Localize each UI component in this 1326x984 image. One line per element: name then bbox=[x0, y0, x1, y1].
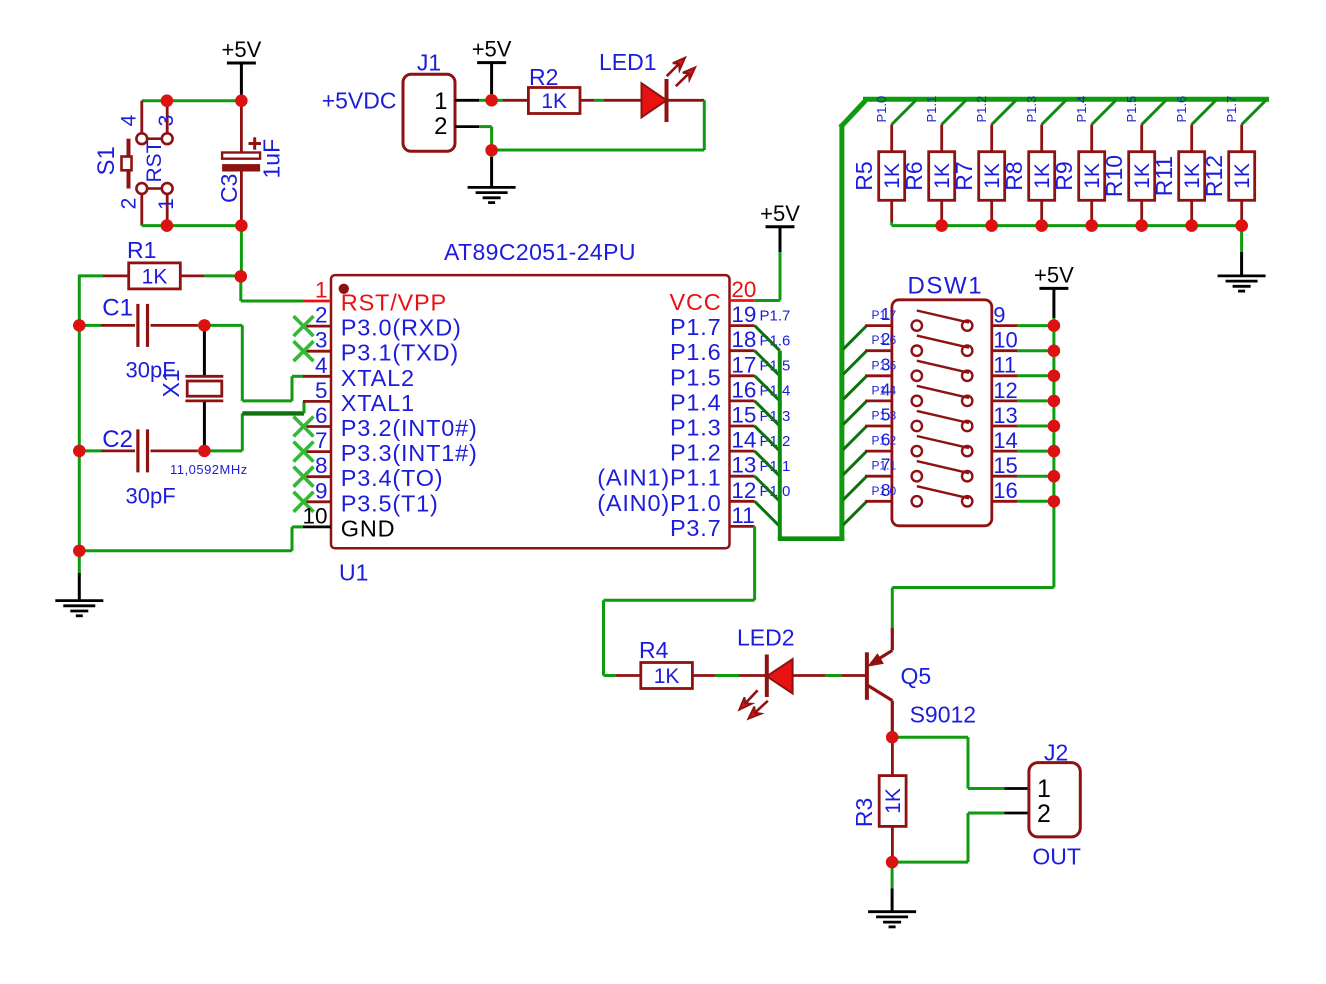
svg-text:+5VDC: +5VDC bbox=[322, 88, 397, 114]
svg-text:11: 11 bbox=[731, 503, 754, 528]
wire pin20 to +5V bbox=[755, 299, 780, 302]
svg-text:7: 7 bbox=[315, 428, 328, 453]
no-connect X pin 7 bbox=[294, 442, 314, 462]
DSW1 switch 5 (pins 5/13) bbox=[843, 426, 867, 450]
svg-text:AT89C2051-24PU: AT89C2051-24PU bbox=[444, 239, 636, 265]
svg-text:1K: 1K bbox=[882, 788, 905, 814]
wire to J2 pin 2 bbox=[892, 861, 968, 864]
svg-text:R9: R9 bbox=[1051, 161, 1077, 190]
wire P1 bundle vertical bbox=[778, 351, 782, 539]
svg-text:1: 1 bbox=[881, 304, 891, 324]
svg-text:4: 4 bbox=[118, 114, 141, 126]
U1 pin 15 P1.3 bbox=[730, 425, 755, 428]
svg-text:11,0592MHz: 11,0592MHz bbox=[170, 462, 248, 477]
wire P1 bundle bottom bbox=[778, 536, 845, 541]
svg-text:C1: C1 bbox=[102, 295, 133, 322]
svg-text:R4: R4 bbox=[639, 637, 669, 663]
ground (left rail) bbox=[78, 551, 81, 573]
DSW1 switch 2 (pins 2/10) bbox=[843, 351, 867, 375]
svg-text:+5V: +5V bbox=[222, 37, 262, 62]
svg-text:LED1: LED1 bbox=[599, 49, 657, 75]
wire S1/C3 bottom rail bbox=[142, 224, 242, 227]
svg-text:P1.5: P1.5 bbox=[1124, 96, 1139, 123]
svg-text:3: 3 bbox=[881, 354, 891, 374]
svg-text:R5: R5 bbox=[851, 161, 877, 190]
svg-text:16: 16 bbox=[731, 377, 756, 402]
svg-text:P1.5: P1.5 bbox=[670, 364, 722, 390]
svg-text:R2: R2 bbox=[529, 64, 558, 90]
J1 pin 1 stub bbox=[455, 99, 479, 102]
capacitor C3 1uF bbox=[240, 101, 243, 153]
svg-text:U1: U1 bbox=[339, 560, 368, 586]
resistor R2 1K bbox=[492, 99, 503, 102]
wire XTAL2 route bbox=[204, 324, 242, 327]
svg-text:14: 14 bbox=[731, 428, 756, 453]
svg-text:+5V: +5V bbox=[472, 37, 512, 62]
svg-text:8: 8 bbox=[881, 480, 891, 500]
svg-text:11: 11 bbox=[993, 353, 1016, 378]
crystal X1 11,0592MHz bbox=[203, 325, 206, 375]
svg-text:P1.4: P1.4 bbox=[1074, 96, 1089, 123]
wire LED2 to Q5 base bbox=[793, 674, 825, 677]
svg-text:15: 15 bbox=[731, 403, 756, 428]
junction R3 bottom bbox=[886, 856, 898, 868]
resistor R9 1K bbox=[1092, 100, 1117, 125]
U1 pin 4 XTAL2 bbox=[303, 375, 331, 378]
svg-text:13: 13 bbox=[731, 453, 756, 478]
LED1 bbox=[642, 83, 667, 117]
svg-text:P1.3: P1.3 bbox=[670, 415, 722, 441]
junction DSW1 pin 11 bbox=[1048, 370, 1060, 382]
J1 pin 2 stub bbox=[455, 125, 479, 128]
capacitor C1 30pF bbox=[79, 324, 101, 327]
wire P1 bus corner bbox=[840, 101, 865, 128]
svg-text:13: 13 bbox=[993, 403, 1017, 428]
junction DSW1 pin 14 bbox=[1048, 445, 1060, 457]
svg-text:9: 9 bbox=[993, 303, 1005, 328]
capacitor C2 30pF bbox=[79, 449, 101, 452]
wire P1.x diagonal bundle from U1 bbox=[755, 326, 780, 351]
svg-text:J2: J2 bbox=[1044, 739, 1068, 765]
svg-text:1K: 1K bbox=[142, 265, 168, 288]
wire U1 pin 11 to R4 bbox=[753, 526, 756, 600]
svg-text:2: 2 bbox=[315, 303, 328, 328]
svg-text:P1.4: P1.4 bbox=[670, 389, 722, 415]
U1 pin 18 P1.6 bbox=[730, 349, 755, 352]
U1 pin 9 P3.5(T1) bbox=[303, 500, 331, 503]
DSW1 switch 1 (pins 1/9) bbox=[843, 326, 867, 350]
svg-text:10: 10 bbox=[993, 328, 1017, 353]
svg-text:R6: R6 bbox=[901, 161, 927, 190]
U1 pin 1 marker bbox=[339, 284, 349, 294]
DSW1 switch 8 (pins 8/16) bbox=[843, 501, 867, 525]
U1 pin 20 VCC bbox=[730, 299, 755, 302]
junction ground rail bbox=[73, 545, 85, 557]
DSW1 switch 7 (pins 7/15) bbox=[843, 476, 867, 500]
junction C1/XTAL2 bbox=[198, 319, 210, 331]
wire P1 bus vertical (thick) bbox=[839, 124, 844, 541]
svg-text:9: 9 bbox=[315, 478, 328, 503]
svg-text:R1: R1 bbox=[127, 237, 156, 263]
svg-text:1uF: 1uF bbox=[259, 139, 285, 179]
resistor R12 1K bbox=[1242, 100, 1267, 125]
svg-text:P1.0: P1.0 bbox=[874, 96, 889, 123]
svg-text:R3: R3 bbox=[851, 798, 877, 827]
no-connect X pin 2 bbox=[294, 316, 314, 336]
junction DSW1 pin 13 bbox=[1048, 420, 1060, 432]
svg-text:C2: C2 bbox=[102, 426, 133, 453]
ground (J1) bbox=[490, 150, 493, 157]
resistor R3 1K bbox=[891, 741, 894, 776]
U1 pin 6 P3.2(INT0#) bbox=[303, 425, 331, 428]
no-connect X pin 3 bbox=[294, 341, 314, 361]
resistor R1 1K bbox=[79, 274, 103, 277]
svg-text:12: 12 bbox=[731, 478, 756, 503]
wire P1 bus top (thick) bbox=[863, 97, 1269, 102]
junction R1 right bbox=[235, 270, 247, 282]
svg-text:1K: 1K bbox=[541, 90, 567, 113]
junction bottom bus R11 bbox=[1186, 219, 1198, 231]
junction DSW1 pin 15 bbox=[1048, 470, 1060, 482]
svg-text:19: 19 bbox=[731, 302, 756, 327]
svg-text:(AIN1)P1.1: (AIN1)P1.1 bbox=[597, 465, 721, 491]
U1 pin 2 P3.0(RXD) bbox=[303, 325, 331, 328]
wire C3 to R1 node bbox=[240, 226, 243, 277]
svg-text:S1: S1 bbox=[93, 146, 120, 175]
U1 pin 13 (AIN1)P1.1 bbox=[730, 475, 755, 478]
svg-text:P3.7: P3.7 bbox=[670, 515, 722, 541]
U1 pin 14 P1.2 bbox=[730, 450, 755, 453]
svg-text:R11: R11 bbox=[1151, 156, 1177, 197]
U1 pin 5 XTAL1 bbox=[303, 400, 331, 403]
svg-text:P3.5(T1): P3.5(T1) bbox=[341, 490, 439, 516]
svg-text:30pF: 30pF bbox=[126, 484, 176, 509]
U1 pin 17 P1.5 bbox=[730, 374, 755, 377]
connector J1 bbox=[403, 74, 455, 151]
svg-text:P1.7: P1.7 bbox=[760, 307, 791, 324]
svg-text:DSW1: DSW1 bbox=[908, 273, 984, 300]
ground (resistor network) bbox=[1240, 226, 1243, 252]
svg-text:2: 2 bbox=[881, 329, 891, 349]
svg-text:7: 7 bbox=[881, 455, 891, 475]
U1 pin 10 GND bbox=[303, 526, 331, 529]
svg-text:5: 5 bbox=[315, 378, 328, 403]
junction Q5 collector / R3 top bbox=[886, 731, 898, 743]
svg-text:R8: R8 bbox=[1001, 161, 1027, 190]
junction bottom bus R12 bbox=[1236, 219, 1248, 231]
op IC U1 AT89C2051-24PU body bbox=[331, 275, 730, 548]
U1 pin 7 P3.3(INT1#) bbox=[303, 450, 331, 453]
svg-text:1: 1 bbox=[434, 88, 447, 115]
svg-text:6: 6 bbox=[881, 430, 891, 450]
junction DSW1 pin 12 bbox=[1048, 395, 1060, 407]
svg-text:8: 8 bbox=[315, 453, 328, 478]
wire S1/C3 top rail bbox=[142, 99, 242, 102]
svg-text:4: 4 bbox=[881, 379, 891, 399]
svg-text:P1.2: P1.2 bbox=[974, 96, 989, 123]
svg-text:RST/VPP: RST/VPP bbox=[341, 290, 447, 316]
junction on S1 pin 3 bbox=[161, 95, 173, 107]
svg-text:2: 2 bbox=[1037, 800, 1051, 828]
svg-text:P3.3(INT1#): P3.3(INT1#) bbox=[341, 440, 478, 466]
wire to J2 pin 1 bbox=[892, 736, 968, 739]
svg-text:12: 12 bbox=[993, 378, 1017, 403]
no-connect X pin 6 bbox=[294, 417, 314, 437]
svg-text:1: 1 bbox=[155, 198, 178, 210]
svg-text:1K: 1K bbox=[1231, 163, 1254, 189]
resistor R8 1K bbox=[1042, 100, 1067, 125]
wire LED1 cathode loop bbox=[667, 99, 705, 102]
wire XTAL1 route bbox=[204, 449, 242, 452]
LED2 bbox=[767, 659, 793, 693]
wire GND to U1 pin 10 bbox=[79, 549, 292, 552]
junction bottom bus R10 bbox=[1136, 219, 1148, 231]
U1 pin 16 P1.4 bbox=[730, 399, 755, 402]
U1 pin 8 P3.4(TO) bbox=[303, 475, 331, 478]
no-connect X pin 9 bbox=[294, 492, 314, 512]
transistor Q5 S9012 bbox=[865, 652, 869, 700]
resistor R10 1K bbox=[1142, 100, 1167, 125]
svg-text:R10: R10 bbox=[1101, 155, 1127, 197]
junction dots (overlay) bbox=[161, 95, 173, 107]
svg-text:P1.6: P1.6 bbox=[670, 339, 722, 365]
junction bottom bus R7 bbox=[986, 219, 998, 231]
svg-text:1K: 1K bbox=[654, 665, 680, 688]
svg-text:5: 5 bbox=[881, 405, 891, 425]
svg-text:P3.4(TO): P3.4(TO) bbox=[341, 465, 444, 491]
svg-text:GND: GND bbox=[341, 515, 396, 541]
junction S1 pin 1 bbox=[161, 219, 173, 231]
wire R1 to U1 pin 1 bbox=[239, 276, 242, 301]
DIP switch DSW1 body bbox=[892, 300, 992, 526]
resistor R7 1K bbox=[992, 100, 1017, 125]
resistor R4 1K bbox=[604, 674, 617, 677]
svg-text:P1.7: P1.7 bbox=[670, 314, 722, 340]
svg-text:P3.1(TXD): P3.1(TXD) bbox=[341, 340, 459, 366]
U1 pin 12 (AIN0)P1.0 bbox=[730, 500, 755, 503]
resistor R11 1K bbox=[1192, 100, 1217, 125]
svg-text:P3.0(RXD): P3.0(RXD) bbox=[341, 315, 462, 341]
svg-text:R7: R7 bbox=[951, 161, 977, 190]
svg-text:LED2: LED2 bbox=[737, 625, 795, 651]
junction C1 left bbox=[73, 319, 85, 331]
svg-text:3: 3 bbox=[155, 115, 178, 127]
svg-text:OUT: OUT bbox=[1032, 844, 1081, 870]
junction DSW1 pin 16 bbox=[1048, 495, 1060, 507]
resistor R5 1K bbox=[892, 100, 917, 125]
svg-text:10: 10 bbox=[302, 503, 327, 528]
wire DSW1 +5V bus bbox=[1052, 318, 1055, 588]
U1 pin 1 RST/VPP bbox=[303, 300, 331, 303]
junction bottom bus R8 bbox=[1036, 219, 1048, 231]
DSW1 switch 3 (pins 3/11) bbox=[843, 376, 867, 400]
U1 pin 11 P3.7 bbox=[730, 525, 755, 528]
svg-text:17: 17 bbox=[731, 352, 756, 377]
junction at C3 top bbox=[235, 95, 247, 107]
svg-text:4: 4 bbox=[315, 353, 328, 378]
svg-text:RST: RST bbox=[143, 140, 166, 182]
svg-text:C3: C3 bbox=[216, 174, 242, 203]
junction DSW1 pin 10 bbox=[1048, 345, 1060, 357]
svg-text:1: 1 bbox=[315, 278, 328, 303]
svg-text:P3.2(INT0#): P3.2(INT0#) bbox=[341, 415, 478, 441]
svg-text:R12: R12 bbox=[1201, 155, 1227, 197]
svg-text:S9012: S9012 bbox=[910, 702, 977, 728]
no-connect X pin 8 bbox=[294, 467, 314, 487]
junction bottom bus R6 bbox=[936, 219, 948, 231]
junction bottom bus R9 bbox=[1086, 219, 1098, 231]
svg-text:P1.7: P1.7 bbox=[1224, 96, 1239, 123]
svg-text:16: 16 bbox=[993, 478, 1017, 503]
svg-text:2: 2 bbox=[434, 113, 447, 140]
svg-text:XTAL1: XTAL1 bbox=[341, 390, 415, 416]
svg-text:(AIN0)P1.0: (AIN0)P1.0 bbox=[597, 490, 721, 516]
pushbutton S1 bbox=[140, 101, 143, 134]
svg-text:J1: J1 bbox=[417, 50, 441, 76]
svg-text:P1.6: P1.6 bbox=[1174, 96, 1189, 123]
DSW1 switch 4 (pins 4/12) bbox=[843, 401, 867, 425]
connector J2 bbox=[1029, 763, 1080, 837]
junction C3 bottom bbox=[235, 219, 247, 231]
junction J1 pin 1 node bbox=[485, 94, 497, 106]
wire +5V to Q5 emitter bbox=[892, 586, 1054, 589]
junction C2/XTAL1 bbox=[198, 445, 210, 457]
svg-text:+5V: +5V bbox=[760, 201, 800, 226]
svg-text:P1.1: P1.1 bbox=[924, 96, 939, 123]
svg-text:3: 3 bbox=[315, 328, 328, 353]
junction DSW1 pin 9 bbox=[1048, 319, 1060, 331]
svg-text:XTAL2: XTAL2 bbox=[341, 365, 415, 391]
svg-text:2: 2 bbox=[118, 198, 141, 210]
svg-text:18: 18 bbox=[731, 327, 756, 352]
resistor R6 1K bbox=[942, 100, 967, 125]
wire resistor network bottom bus bbox=[892, 224, 1242, 227]
svg-text:P1.3: P1.3 bbox=[1024, 96, 1039, 123]
junction J1 pin 2 node bbox=[485, 144, 497, 156]
junction C2 left bbox=[73, 445, 85, 457]
svg-text:20: 20 bbox=[731, 277, 756, 302]
svg-text:Q5: Q5 bbox=[901, 663, 932, 689]
U1 pin 3 P3.1(TXD) bbox=[303, 350, 331, 353]
svg-text:X1: X1 bbox=[158, 369, 184, 397]
svg-text:14: 14 bbox=[993, 428, 1017, 453]
ground (R3) bbox=[891, 862, 894, 888]
svg-text:P1.2: P1.2 bbox=[670, 440, 722, 466]
U1 pin 19 P1.7 bbox=[730, 324, 755, 327]
svg-text:15: 15 bbox=[993, 453, 1017, 478]
DSW1 switch 6 (pins 6/14) bbox=[843, 451, 867, 475]
svg-text:VCC: VCC bbox=[669, 289, 721, 315]
svg-text:6: 6 bbox=[315, 403, 328, 428]
wire left rail bbox=[78, 275, 81, 551]
svg-text:+5V: +5V bbox=[1034, 262, 1074, 287]
